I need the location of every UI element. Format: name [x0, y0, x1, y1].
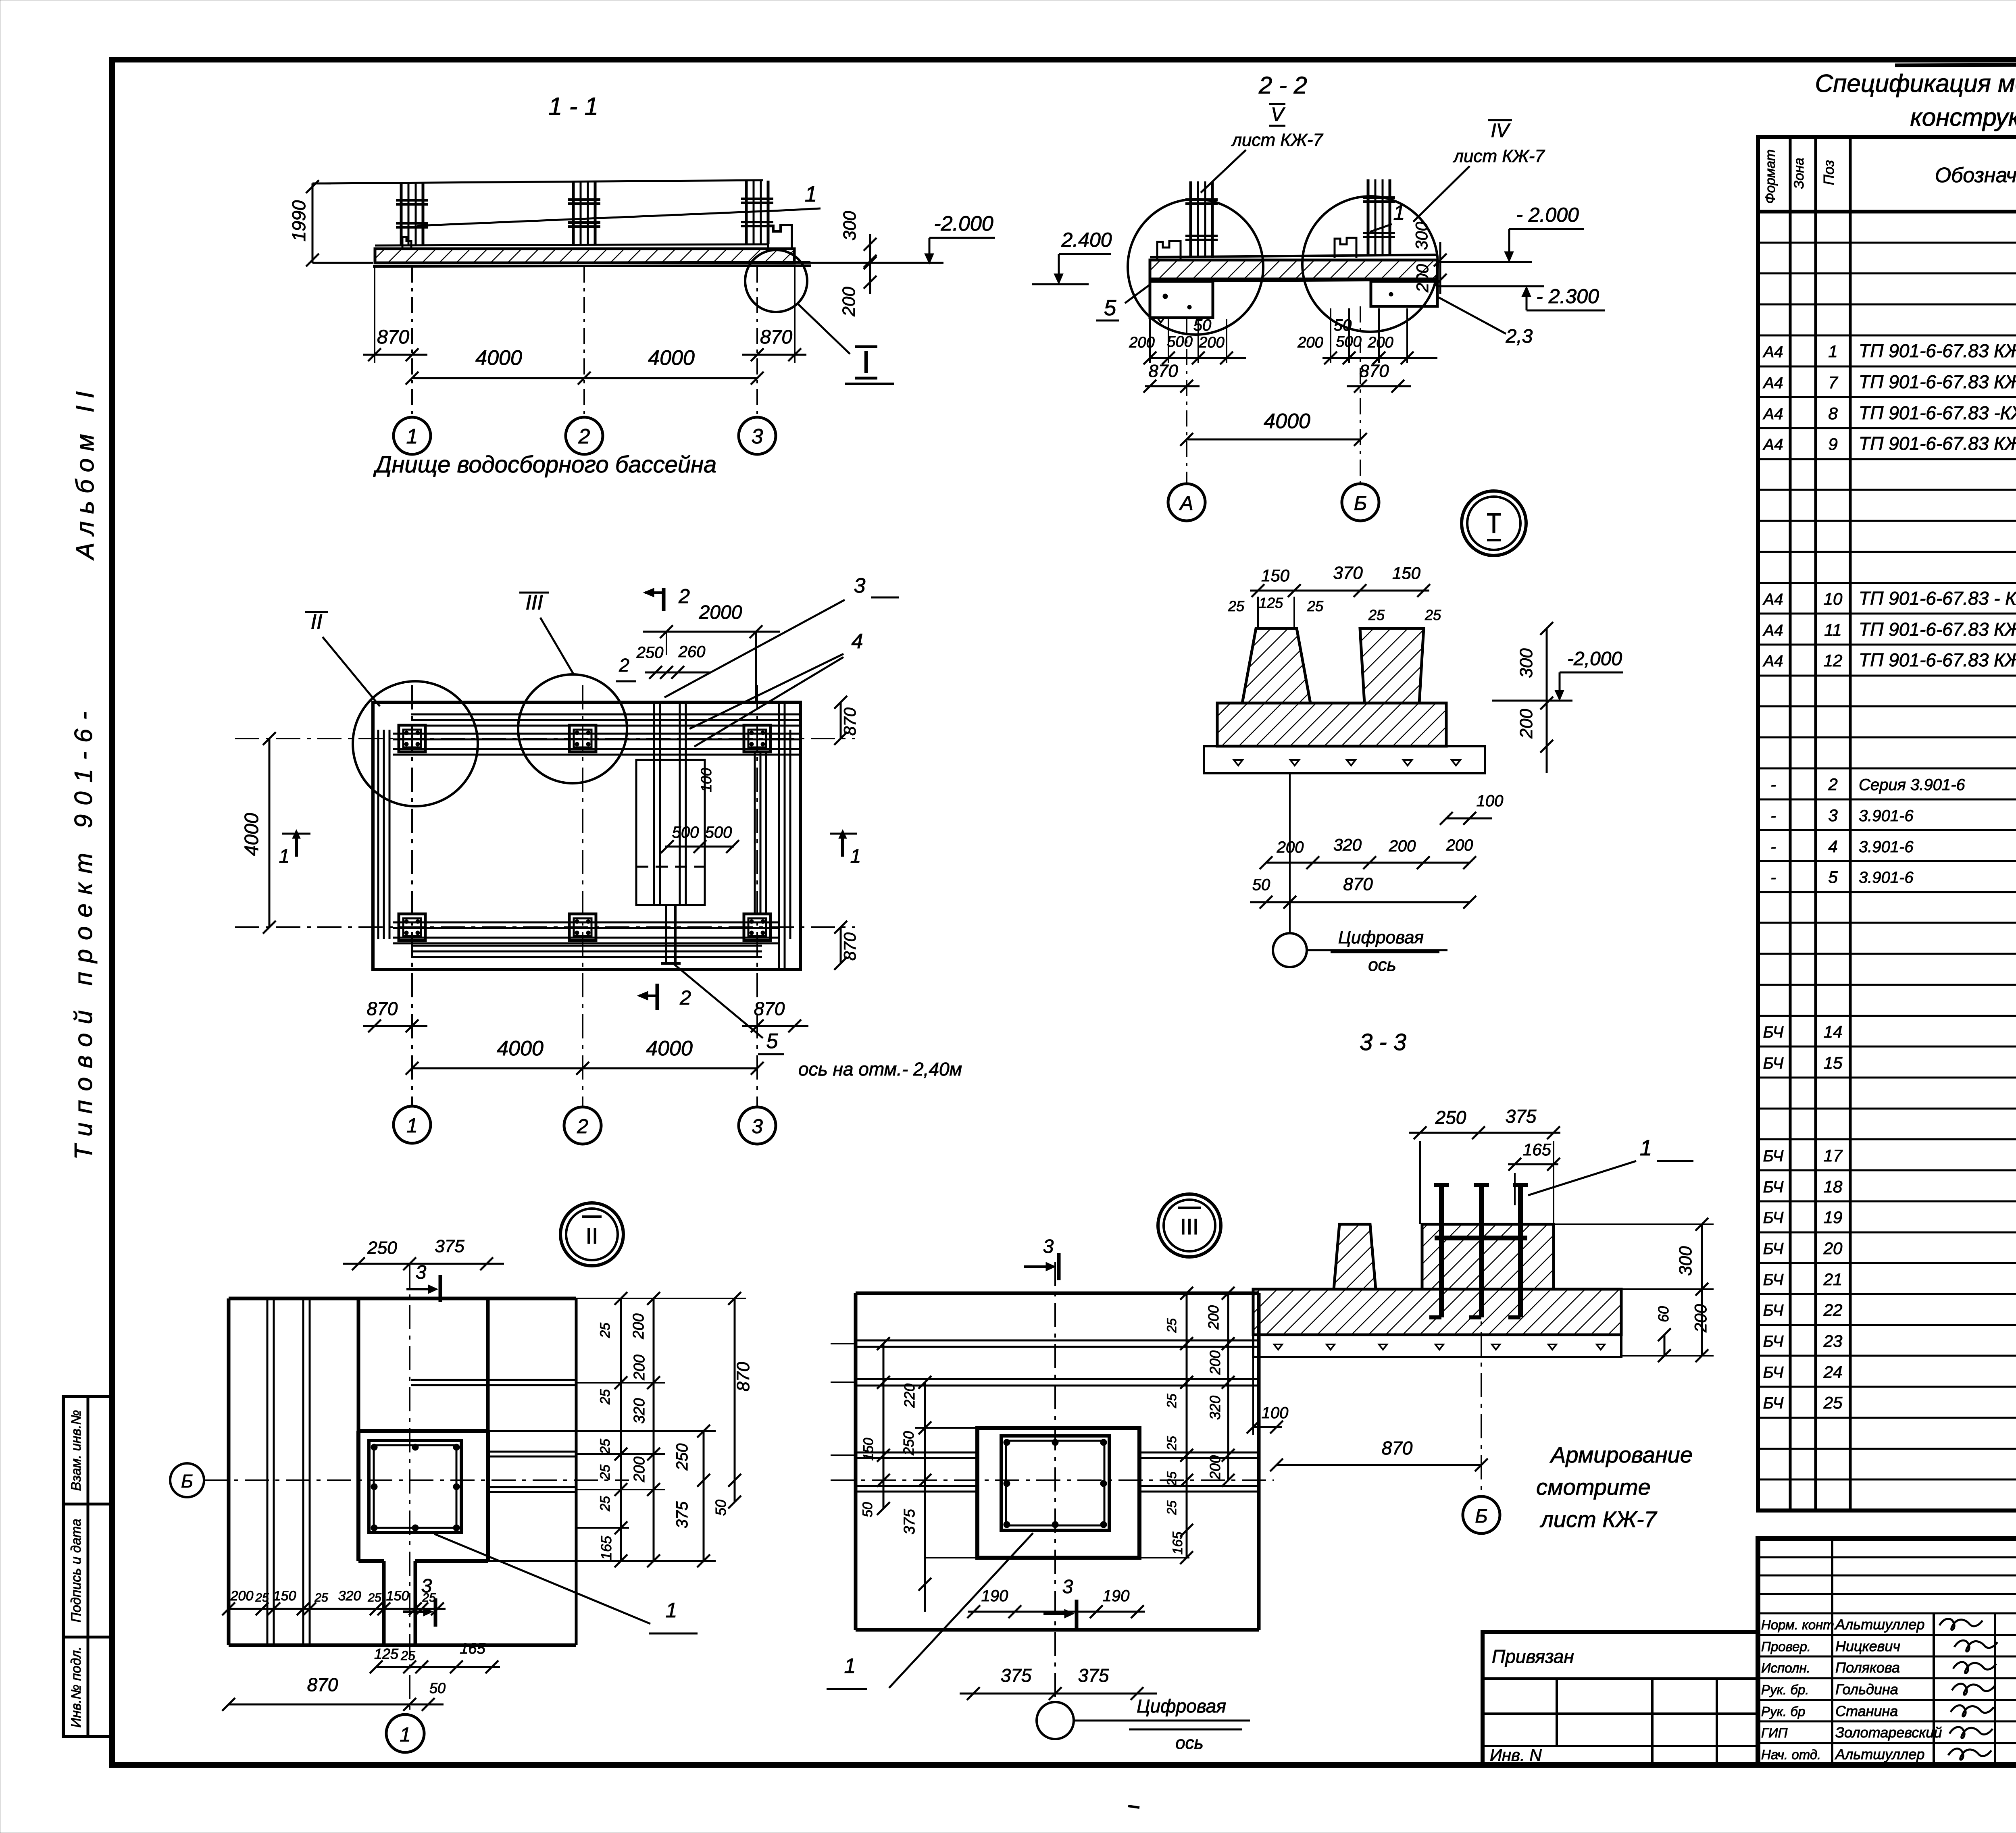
level mark 2.400 [1032, 229, 1112, 284]
detail II slab outline [229, 1298, 576, 1645]
axis circle 3 (plan) [739, 1107, 776, 1144]
leader label 3 (plan) [664, 574, 899, 697]
svg-text:ТП 901-6-67.83 КЖИ-С 5: ТП 901-6-67.83 КЖИ-С 5 [1859, 619, 2016, 640]
svg-text:25: 25 [1164, 1500, 1179, 1515]
svg-text:3: 3 [421, 1575, 432, 1597]
svg-text:250: 250 [1435, 1107, 1466, 1128]
svg-text:Провер.: Провер. [1761, 1639, 1811, 1654]
svg-text:ТП 901-6-67.83 КЖИ-КП 15,КП16: ТП 901-6-67.83 КЖИ-КП 15,КП16 [1859, 371, 2016, 392]
pit rebar vertical lines (plan) [654, 702, 686, 905]
armature horizontal bar [1435, 1236, 1527, 1240]
leader label 1 (section 2-2) [1370, 201, 1405, 232]
svg-text:870: 870 [377, 327, 409, 348]
column base 1-Б (plan) [399, 725, 425, 752]
svg-text:БЧ: БЧ [1763, 1209, 1784, 1227]
svg-text:Золотаревский: Золотаревский [1835, 1724, 1942, 1741]
svg-text:250: 250 [900, 1431, 917, 1456]
armature right dims 300 200 60 [1554, 1218, 1714, 1362]
svg-text:2,3: 2,3 [1506, 326, 1533, 347]
svg-text:300: 300 [1412, 221, 1431, 250]
3-3 bottom dim chain 200 320 200 200 [1260, 835, 1476, 869]
svg-text:Поз: Поз [1820, 160, 1837, 185]
detail label I [845, 344, 894, 384]
detail II axis circle 1 [386, 1714, 424, 1752]
svg-text:12: 12 [1824, 651, 1843, 670]
level mark -2.000 (section 2-2) [1437, 204, 1584, 262]
svg-text:8: 8 [1828, 404, 1838, 423]
detail I double circle [1462, 491, 1526, 556]
plan axis А beam lines [393, 922, 778, 943]
svg-text:25: 25 [255, 1591, 269, 1604]
svg-text:150: 150 [273, 1588, 296, 1604]
dimension 870 right (2-2) [1347, 361, 1411, 393]
detail II right dim chain 25s [598, 1292, 627, 1567]
svg-text:165: 165 [598, 1535, 614, 1560]
svg-text:100: 100 [1262, 1404, 1289, 1422]
svg-text:50: 50 [860, 1502, 875, 1517]
callout IV лист КЖ-7 [1413, 120, 1545, 222]
svg-text:200: 200 [1389, 837, 1416, 855]
svg-text:375: 375 [435, 1236, 464, 1256]
svg-text:2: 2 [1828, 775, 1837, 794]
svg-text:4000: 4000 [1264, 410, 1310, 433]
svg-text:200: 200 [631, 1456, 648, 1482]
detail II section mark 3 bottom [403, 1575, 435, 1627]
detail II column pedestal outline [358, 1431, 488, 1561]
spec table header texts [1763, 149, 2016, 204]
title block upper-left revision rows [1758, 1557, 2016, 1613]
detail circle around Б column joint [1302, 196, 1438, 332]
svg-text:250: 250 [673, 1444, 691, 1471]
svg-text:5: 5 [766, 1030, 779, 1053]
svg-text:100: 100 [1477, 792, 1504, 810]
3-3 base layer [1204, 746, 1485, 773]
3-3 right upstand hatched [1360, 628, 1424, 703]
dimension 870 left (section 1-1) [363, 327, 427, 361]
svg-text:4000: 4000 [646, 1037, 693, 1060]
svg-text:ТП 901-6-67.83 - КЖИ-СЧ: ТП 901-6-67.83 - КЖИ-СЧ [1859, 588, 2016, 609]
title block outer frame [1758, 1539, 2016, 1765]
svg-text:3: 3 [854, 574, 866, 597]
bortik right (section 2-2) [1335, 238, 1356, 258]
svg-text:1990: 1990 [288, 200, 309, 241]
svg-text:870: 870 [840, 707, 859, 736]
svg-text:А4: А4 [1763, 652, 1783, 670]
svg-text:870: 870 [367, 998, 398, 1019]
axis line А (plan) [235, 926, 855, 928]
svg-text:370: 370 [1333, 563, 1363, 583]
svg-text:870: 870 [1148, 361, 1178, 381]
svg-text:Цифровая: Цифровая [1137, 1696, 1226, 1716]
svg-text:2000: 2000 [699, 602, 742, 623]
armature rebar 2 vertical [1469, 1185, 1489, 1317]
svg-text:200: 200 [1207, 1455, 1223, 1480]
dimension 4000 4000 bottom (plan) [406, 1037, 764, 1075]
svg-text:15: 15 [1824, 1053, 1843, 1072]
svg-text:7: 7 [1828, 373, 1838, 392]
svg-text:-: - [1770, 838, 1776, 856]
svg-text:Станина: Станина [1835, 1703, 1898, 1719]
detail II leader label 1 [434, 1534, 698, 1633]
svg-text:V: V [1271, 104, 1285, 125]
svg-text:ТП 901-6-67.83 КЖИ-КП 17: ТП 901-6-67.83 КЖИ-КП 17 [1859, 433, 2016, 454]
svg-text:320: 320 [631, 1398, 648, 1423]
svg-text:500: 500 [705, 824, 732, 841]
dimension 500 500 (plan) [661, 824, 739, 853]
column on axis Б (section 2-2) [1363, 179, 1395, 255]
detail III leader label 1 [827, 1533, 1033, 1689]
svg-text:25: 25 [1368, 607, 1385, 623]
svg-text:25: 25 [314, 1591, 328, 1604]
leader label 5 (section 2-2) [1096, 285, 1150, 320]
svg-text:260: 260 [678, 643, 706, 661]
detail II double circle marker [560, 1203, 623, 1266]
svg-text:18: 18 [1824, 1177, 1843, 1196]
svg-text:2: 2 [678, 585, 690, 608]
svg-text:2.400: 2.400 [1061, 229, 1112, 251]
svg-text:-: - [1770, 776, 1776, 794]
svg-text:Б: Б [181, 1471, 193, 1492]
note Армирование смотрите лист КЖ-7 [1536, 1442, 1693, 1532]
detail III axis Б line [831, 1479, 1274, 1481]
margin stamp boxes [63, 1396, 113, 1737]
svg-text:Б: Б [1475, 1506, 1487, 1527]
svg-text:25: 25 [1823, 1393, 1843, 1412]
svg-text:25: 25 [367, 1591, 381, 1604]
slab band hatched (section 1-1) [373, 244, 811, 266]
svg-text:БЧ: БЧ [1763, 1302, 1784, 1319]
dimension 870 bottom right (plan) [742, 998, 808, 1032]
axis line 3 (plan) [756, 685, 758, 1107]
svg-text:БЧ: БЧ [1763, 1364, 1784, 1382]
svg-text:25: 25 [1164, 1436, 1179, 1451]
svg-text:2: 2 [619, 655, 629, 676]
foundation band hatched (section 2-2) [1150, 255, 1437, 281]
detail II column axis line [409, 1264, 410, 1713]
extension lines below footings (2-2) [1150, 308, 1407, 363]
svg-text:А4: А4 [1763, 343, 1783, 361]
dimension 870 rotated right top (plan) [834, 696, 859, 745]
armature leader label 1 [1528, 1135, 1693, 1195]
svg-text:Серия 3.901-6: Серия 3.901-6 [1859, 776, 1966, 794]
svg-text:250: 250 [636, 644, 664, 662]
detail II beam walls down [384, 1561, 415, 1645]
svg-text:- 2.300: - 2.300 [1536, 285, 1599, 308]
svg-text:3: 3 [1043, 1236, 1054, 1257]
spec table grid [1758, 137, 2016, 1511]
svg-text:200: 200 [1205, 1305, 1222, 1330]
svg-text:1: 1 [666, 1599, 677, 1622]
svg-text:III: III [525, 591, 543, 614]
svg-text:24: 24 [1823, 1363, 1843, 1382]
svg-text:ось: ось [1368, 955, 1396, 975]
detail II dim 870 50 bottom [222, 1674, 446, 1711]
svg-text:4000: 4000 [497, 1037, 544, 1060]
svg-text:1: 1 [406, 1114, 418, 1137]
svg-text:III: III [1180, 1214, 1199, 1239]
callout V лист КЖ-7 [1201, 104, 1323, 193]
svg-text:Альбом II: Альбом II [71, 384, 99, 561]
detail III dim 375 375 [960, 1665, 1157, 1700]
label II with leader [305, 610, 380, 706]
svg-text:21: 21 [1823, 1270, 1843, 1289]
armature dim 250 375 [1409, 1106, 1560, 1224]
svg-text:200: 200 [1367, 334, 1393, 351]
column base 3-Б (plan) [744, 725, 771, 752]
svg-text:50: 50 [1193, 316, 1212, 334]
detail III left dims rotated [860, 1337, 931, 1612]
column on axis 1 [396, 182, 428, 246]
central pit dashed outline (plan) [636, 760, 705, 905]
svg-text:500: 500 [1167, 333, 1192, 350]
armature rebar 1 vertical [1429, 1185, 1449, 1317]
svg-text:25: 25 [598, 1389, 613, 1405]
detail III full-width rebar pair 1 [856, 1340, 1259, 1347]
svg-text:I: I [862, 344, 871, 380]
svg-text:Подпись и дата: Подпись и дата [69, 1519, 84, 1622]
svg-text:лист КЖ-7: лист КЖ-7 [1539, 1506, 1657, 1532]
svg-text:165: 165 [460, 1640, 485, 1657]
svg-text:лист КЖ-7: лист КЖ-7 [1452, 146, 1545, 166]
svg-text:25: 25 [1164, 1471, 1179, 1486]
svg-text:Рук. бр.: Рук. бр. [1761, 1682, 1809, 1697]
svg-text:1: 1 [1640, 1135, 1652, 1160]
plan axis Б beam lines [393, 734, 800, 755]
plan axis 3 vertical rebar lines [755, 752, 766, 915]
svg-text:4000: 4000 [241, 813, 262, 856]
svg-text:БЧ: БЧ [1763, 1271, 1784, 1289]
detail II bottom dim texts [230, 1588, 436, 1604]
axis circle 3 (section 1-1) [739, 417, 776, 454]
detail II dim 870 50 right [712, 1292, 753, 1516]
plan outer slab outline [373, 702, 800, 970]
3-3 dim 50 870 [1250, 874, 1476, 909]
svg-text:150: 150 [1392, 564, 1421, 583]
detail III right dims rotated [1164, 1287, 1235, 1564]
svg-text:3: 3 [416, 1262, 427, 1283]
svg-text:ось на отм.- 2,40м: ось на отм.- 2,40м [798, 1059, 962, 1080]
svg-text:870: 870 [1382, 1438, 1413, 1458]
detail III axis circle with Цифровая ось [1037, 1696, 1250, 1753]
svg-text:Днище водосборного бассейна: Днище водосборного бассейна [373, 451, 717, 478]
detail I callout circle [745, 250, 807, 312]
detail II column rebar cage [369, 1440, 461, 1533]
svg-text:300: 300 [1516, 648, 1536, 678]
3-3 small dims 25 125 25 25 25 [1228, 595, 1441, 629]
detail II right extension lines [488, 1298, 746, 1561]
svg-text:320: 320 [1333, 835, 1362, 854]
axis circle 1 (section 1-1) [394, 417, 431, 454]
svg-text:125: 125 [1259, 595, 1283, 611]
svg-text:200: 200 [230, 1588, 254, 1604]
svg-text:200: 200 [1129, 334, 1154, 351]
svg-text:19: 19 [1824, 1208, 1843, 1227]
svg-text:ось: ось [1175, 1733, 1204, 1753]
column base 3-А (plan) [744, 914, 771, 940]
svg-text:870: 870 [307, 1674, 338, 1695]
svg-text:Норм. конт.: Норм. конт. [1761, 1617, 1838, 1632]
svg-text:БЧ: БЧ [1763, 1178, 1784, 1196]
svg-text:870: 870 [1359, 361, 1389, 381]
dimension 870 rotated right bottom (plan) [834, 921, 859, 970]
svg-text:200: 200 [1516, 709, 1536, 739]
leader to detail label I [798, 304, 850, 354]
svg-text:БЧ: БЧ [1763, 1394, 1784, 1412]
axis circle 1 (plan) [394, 1106, 431, 1143]
svg-text:А4: А4 [1763, 622, 1783, 639]
svg-text:1: 1 [279, 846, 290, 867]
svg-text:Формат: Формат [1763, 149, 1778, 204]
svg-text:Цифровая: Цифровая [1338, 928, 1424, 947]
armature detail central upstand hatched [1422, 1224, 1554, 1289]
svg-text:Б: Б [1354, 492, 1367, 514]
svg-text:870: 870 [1343, 874, 1373, 894]
pit pipe below (plan) [661, 905, 681, 963]
svg-text:Исполн.: Исполн. [1761, 1660, 1810, 1675]
title block signature labels [1761, 1616, 1997, 1762]
svg-text:1: 1 [1393, 201, 1405, 225]
section 1-1 top chord line [325, 180, 763, 183]
detail III column axis line [1054, 1262, 1056, 1700]
3-3 left upstand hatched [1242, 628, 1310, 703]
svg-text:лист КЖ-7: лист КЖ-7 [1231, 130, 1323, 150]
svg-text:150: 150 [1261, 566, 1290, 585]
column base 2-Б (plan) [569, 725, 596, 752]
armature detail left trapezoid upstand hatched [1334, 1224, 1376, 1289]
svg-text:3: 3 [752, 425, 763, 448]
detail III slab outline [856, 1293, 1259, 1630]
detail III double circle marker [1158, 1194, 1221, 1257]
armature dim 100 [1247, 1357, 1288, 1435]
svg-text:3.901-6: 3.901-6 [1859, 807, 1914, 825]
axis circle А (2-2) [1168, 484, 1205, 521]
section mark 1 right (plan) [830, 830, 861, 867]
svg-text:- 2.000: - 2.000 [1516, 204, 1579, 226]
svg-text:375: 375 [901, 1508, 918, 1534]
svg-text:3: 3 [1828, 806, 1837, 825]
level mark -2.300 [1437, 285, 1605, 310]
svg-text:22: 22 [1823, 1300, 1843, 1319]
leader label 2,3 (section 2-2) [1437, 296, 1533, 347]
svg-text:смотрите: смотрите [1536, 1474, 1651, 1500]
detail III section mark 3 bottom [1043, 1576, 1077, 1629]
plan edge beam lines top [411, 714, 800, 726]
detail II right dim chain 200 320 [630, 1292, 660, 1567]
svg-text:500: 500 [672, 824, 699, 841]
svg-text:А4: А4 [1763, 405, 1783, 423]
armature rebar 3 vertical [1508, 1185, 1528, 1317]
privyazan block frame [1483, 1632, 1758, 1765]
svg-text:25: 25 [1307, 598, 1324, 614]
dimension 1990 (left) [288, 180, 373, 266]
svg-text:II: II [585, 1223, 598, 1248]
detail III interrupted rebar pair 3 [856, 1452, 1259, 1458]
3-3 dim 150 370 150 [1250, 563, 1430, 597]
svg-text:190: 190 [1103, 1587, 1130, 1605]
svg-text:4: 4 [852, 630, 863, 653]
detail III column rebar cage [1001, 1436, 1109, 1530]
3-3 dim 300 200 rotated [1516, 622, 1553, 773]
armature dim 870 [1270, 1438, 1488, 1471]
plan edge beam lines bottom [411, 946, 762, 957]
axis line 1 (plan) [411, 685, 413, 1107]
svg-text:200: 200 [1297, 334, 1323, 351]
svg-text:375: 375 [1506, 1106, 1537, 1127]
section mark 2 top (plan) [644, 585, 690, 611]
svg-text:200: 200 [1207, 1350, 1223, 1375]
detail III interrupted rebar pair 4 [856, 1486, 1259, 1492]
svg-text:4000: 4000 [475, 346, 522, 370]
svg-text:25: 25 [598, 1323, 613, 1338]
column base 2-А (plan) [569, 914, 596, 940]
svg-text:25: 25 [1164, 1394, 1179, 1409]
svg-text:300: 300 [840, 211, 860, 241]
svg-text:БЧ: БЧ [1763, 1024, 1784, 1041]
svg-text:25: 25 [598, 1439, 613, 1454]
dimension 870 left (2-2) [1143, 361, 1200, 393]
detail III left extension lines [831, 1344, 977, 1455]
svg-text:4: 4 [1828, 837, 1837, 856]
leader label 5 (plan) [674, 964, 784, 1054]
dimension chain 200 500 200 left (2-2) [1129, 333, 1246, 364]
svg-text:БЧ: БЧ [1763, 1147, 1784, 1165]
svg-text:200: 200 [630, 1313, 647, 1339]
svg-text:870: 870 [760, 327, 792, 348]
svg-text:2: 2 [577, 1115, 588, 1138]
axis circle 2 (plan) [564, 1107, 601, 1144]
svg-text:ТП 901-6-67.83 -КЖИ-КП16: ТП 901-6-67.83 -КЖИ-КП16 [1859, 402, 2016, 423]
detail II bottom dim line [229, 1608, 446, 1610]
detail II vertical rebar pair A [267, 1298, 274, 1645]
svg-text:-2.000: -2.000 [934, 212, 993, 235]
dimension 250 260 (plan) [616, 643, 710, 681]
small dash under sheet [1128, 1806, 1139, 1808]
svg-text:300: 300 [1676, 1246, 1695, 1276]
svg-text:25: 25 [1164, 1318, 1179, 1333]
svg-text:14: 14 [1824, 1022, 1843, 1041]
svg-text:Ницкевич: Ницкевич [1835, 1638, 1900, 1654]
svg-text:-2,000: -2,000 [1567, 648, 1622, 670]
svg-text:25: 25 [598, 1496, 613, 1512]
svg-text:3.901-6: 3.901-6 [1859, 869, 1914, 886]
svg-text:220: 220 [901, 1384, 918, 1408]
svg-text:25: 25 [1228, 598, 1245, 614]
svg-text:870: 870 [733, 1362, 753, 1392]
title block signature rows [1758, 1539, 2016, 1765]
3-3 slab band hatched [1217, 703, 1446, 746]
column base 1-А (plan) [399, 914, 425, 940]
svg-text:190: 190 [981, 1587, 1008, 1605]
svg-text:320: 320 [1207, 1396, 1223, 1420]
svg-text:А4: А4 [1763, 374, 1783, 392]
svg-text:А: А [1179, 492, 1193, 514]
armature dim 165 [1508, 1140, 1560, 1205]
svg-text:Инв.№ подл.: Инв.№ подл. [69, 1646, 84, 1728]
svg-text:250: 250 [367, 1238, 397, 1258]
svg-text:150: 150 [386, 1588, 409, 1604]
svg-text:Взам. инв.№: Взам. инв.№ [69, 1410, 84, 1491]
svg-text:320: 320 [338, 1588, 361, 1604]
svg-text:Обозначение: Обозначение [1935, 164, 2016, 187]
dimension 300 200 (section 2-2 right) [1412, 221, 1447, 294]
svg-text:200: 200 [1446, 836, 1473, 854]
svg-text:20: 20 [1823, 1239, 1843, 1258]
svg-text:23: 23 [1823, 1332, 1843, 1350]
detail II vertical rebar pair B [303, 1298, 310, 1645]
svg-text:1: 1 [400, 1723, 411, 1746]
svg-text:4000: 4000 [648, 346, 695, 370]
svg-text:БЧ: БЧ [1763, 1240, 1784, 1258]
